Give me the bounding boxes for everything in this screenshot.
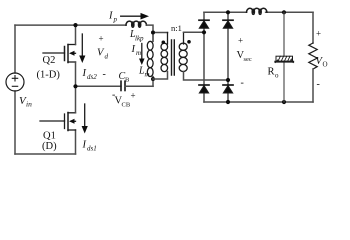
source stub [68, 129, 76, 131]
svg-text:O: O [323, 61, 328, 69]
wire primary bottom [153, 72, 168, 80]
svg-text:(D): (D) [42, 141, 57, 152]
node top rail at right leg [226, 10, 230, 14]
voltage source Vin [6, 73, 24, 91]
diode D4 bottom-right [223, 85, 233, 93]
wire bridge right leg [227, 12, 229, 102]
svg-text:o: o [275, 72, 279, 80]
channel bar [67, 113, 69, 131]
wire bottom rail left [15, 153, 76, 155]
svg-text:-: - [103, 69, 106, 80]
svg-text:R: R [268, 67, 275, 78]
svg-text:d: d [105, 53, 109, 61]
svg-text:+: + [99, 34, 104, 44]
resistor Vo zigzag [309, 43, 317, 69]
wire Q1 source riser [75, 130, 77, 154]
transistor Q1 [40, 113, 76, 131]
drain stub [68, 112, 76, 114]
body arrow [71, 120, 76, 122]
node A dot [202, 30, 206, 34]
svg-text:lkp: lkp [135, 35, 144, 43]
transistor Q2 [43, 45, 76, 63]
wire secondary bottom to node B [184, 72, 229, 81]
wire riser to Lm node [152, 79, 154, 86]
node Lm bottom junction [151, 77, 155, 81]
transformer primary winding [161, 33, 168, 72]
wire Vo branch bottom [312, 69, 314, 102]
inductor Llkp [126, 21, 146, 27]
svg-text:m: m [136, 49, 141, 57]
inductor Lm [147, 33, 153, 80]
wire rail coil to corner [146, 25, 153, 32]
svg-text:p: p [113, 16, 118, 24]
node bottom rail at Ro [282, 100, 286, 104]
source stub [68, 61, 76, 63]
wire secondary top to node A [184, 31, 205, 33]
capacitor CB [120, 81, 122, 90]
wire CB to riser [125, 85, 153, 87]
wire bridge left leg [203, 12, 205, 102]
gate lead [40, 120, 65, 122]
svg-text:+: + [238, 36, 243, 46]
svg-text:I: I [131, 44, 136, 55]
svg-text:n:1: n:1 [171, 23, 182, 33]
inductor output filter [247, 8, 267, 14]
arrow Ids2 [81, 34, 83, 56]
diode D1 top-left [199, 20, 209, 28]
arrow Im [141, 44, 143, 60]
svg-text:-: - [317, 79, 320, 90]
svg-text:ds2: ds2 [87, 73, 97, 81]
gate lead [43, 52, 65, 54]
node B dot [226, 78, 230, 82]
wire Vo branch top [312, 12, 314, 43]
diode D2 top-right [223, 20, 233, 28]
svg-text:ds1: ds1 [87, 145, 97, 153]
diode D3 bottom-left [199, 85, 209, 93]
node top rail at Ro [282, 10, 286, 14]
wire midpoint to CB [76, 85, 122, 87]
wire bottom rail right [204, 101, 313, 103]
node midpoint Q1 Q2 [73, 84, 77, 88]
svg-text:I: I [82, 68, 87, 79]
gate bar [64, 114, 66, 129]
svg-text:I: I [108, 11, 113, 22]
arrow Ip [121, 15, 141, 17]
svg-text:Q1: Q1 [43, 131, 56, 142]
polarity dot primary [162, 41, 166, 45]
node Lm top junction [151, 31, 155, 35]
polarity dot secondary [187, 40, 191, 44]
svg-text:B: B [125, 77, 130, 84]
svg-text:(1-D): (1-D) [37, 70, 61, 81]
wire Q2 drain riser [75, 25, 77, 44]
drain stub [68, 44, 76, 46]
gate bar [64, 47, 66, 61]
channel bar [67, 45, 69, 63]
wire Q2 source to midpoint [75, 62, 77, 86]
wire primary top [153, 32, 168, 34]
body arrow [71, 52, 76, 54]
node bottom rail at right leg [226, 100, 230, 104]
svg-text:Q2: Q2 [43, 55, 56, 66]
svg-text:in: in [26, 100, 32, 109]
svg-text:m: m [145, 71, 150, 79]
svg-text:sec: sec [244, 56, 252, 63]
arrow Ids1 [84, 104, 86, 127]
resistor Ro hatched box [275, 56, 293, 62]
svg-text:+: + [316, 29, 321, 39]
svg-text:I: I [82, 140, 87, 151]
wire left rail [14, 25, 16, 73]
svg-text:+: + [131, 91, 136, 101]
transformer secondary winding [179, 33, 187, 72]
transformer core [172, 40, 175, 75]
wire Ro branch [283, 12, 285, 102]
svg-text:-: - [241, 78, 244, 89]
wire top rail right [204, 11, 313, 13]
wire left rail lower [14, 91, 16, 154]
svg-text:CB: CB [122, 102, 131, 109]
node top rail at Q2 drain [73, 23, 77, 27]
wire top rail left [15, 24, 126, 26]
wire Q1 drain riser [75, 86, 77, 113]
